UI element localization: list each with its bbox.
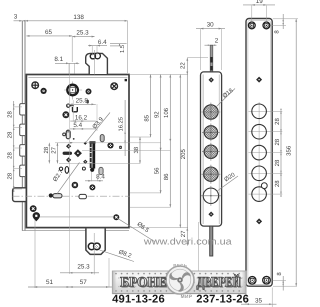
- svg-text:Ø6.5: Ø6.5: [136, 221, 151, 235]
- diamond pin A: [66, 144, 71, 149]
- tiny pin below follower area: [87, 100, 89, 103]
- ext line 138 right: [127, 21, 129, 73]
- screw dark D: [107, 142, 113, 148]
- dim 35: [241, 303, 277, 305]
- dim 19: [243, 4, 275, 6]
- circle pin C: [82, 167, 85, 170]
- screw top-left: [32, 82, 39, 89]
- svg-text:Ø8.2: Ø8.2: [118, 249, 133, 260]
- svg-text:3: 3: [14, 14, 18, 21]
- dimension 1.5: [110, 43, 127, 45]
- svg-text:Ø18: Ø18: [221, 87, 235, 100]
- ext y150.7: [82, 150, 171, 152]
- svg-text:86: 86: [163, 173, 170, 180]
- ext 356 bottom: [273, 285, 297, 287]
- lock body outline: [26, 75, 129, 228]
- strip body: [201, 72, 222, 226]
- svg-text:8: 8: [274, 30, 281, 34]
- strip hole 4: [204, 167, 218, 181]
- dim 8 top: [282, 14, 284, 29]
- dimension 8.1: [55, 62, 79, 64]
- svg-text:8: 8: [276, 272, 283, 276]
- svg-text:2: 2: [215, 38, 219, 45]
- right plate inner contour: [248, 20, 270, 284]
- plate screw top-right: [263, 22, 270, 29]
- dimension 28 27 pair: [48, 143, 50, 164]
- ext y192.9: [130, 192, 161, 194]
- small rounded rect: [79, 194, 86, 198]
- circle pin B: [59, 167, 62, 170]
- svg-text:30: 30: [207, 21, 215, 28]
- ext y137: [130, 136, 151, 138]
- latch bump 2 on faceplate: [20, 124, 25, 136]
- screw dark B: [86, 89, 92, 95]
- svg-text:237-13-26: 237-13-26: [196, 294, 249, 306]
- latch bump 3 on faceplate: [20, 145, 25, 157]
- ext body bottom right: [129, 227, 188, 229]
- svg-text:85: 85: [143, 114, 150, 121]
- strip hole 5 D20: [203, 188, 218, 203]
- dimension 16.2: [70, 120, 96, 122]
- svg-text:28: 28: [274, 138, 281, 145]
- ext y163.4: [59, 162, 140, 164]
- tiny circle A: [63, 133, 66, 136]
- dimension 5.4: [70, 128, 96, 130]
- ext strip left down: [197, 222, 199, 275]
- dim 25.3 bottom: [60, 272, 99, 274]
- lock body inner top line: [28, 76, 127, 78]
- deadbolt tail pin: [49, 193, 53, 197]
- svg-text:8.1: 8.1: [54, 56, 63, 63]
- ext 30: [199, 29, 201, 70]
- dimension 25.3 top: [72, 36, 94, 38]
- svg-text:35: 35: [255, 297, 263, 304]
- ext line 25.3 left: [71, 37, 73, 62]
- latch bump 4 on faceplate: [20, 165, 25, 177]
- svg-text:28: 28: [7, 152, 14, 159]
- screw bottom-left: [30, 205, 37, 212]
- dim 356 long: [295, 19, 297, 286]
- dim 2 pin: [205, 44, 217, 46]
- screw dark E: [72, 182, 79, 189]
- spring stack component: [89, 141, 95, 143]
- leader D6.5: [118, 218, 155, 241]
- svg-text:205: 205: [180, 149, 187, 160]
- bottom keyhole centerline: [93, 233, 95, 275]
- screw dark A: [41, 88, 47, 94]
- dim 30: [196, 28, 225, 30]
- ext y57.7: [187, 57, 208, 59]
- follower long centerline: [68, 64, 70, 275]
- svg-text:138: 138: [73, 14, 84, 21]
- handle follower U1: [67, 85, 78, 96]
- svg-text:ДВЕРЕЙ: ДВЕРЕЙ: [197, 273, 241, 290]
- plate vertical centerline: [258, 102, 260, 202]
- deadbolt tail slot: [53, 194, 62, 198]
- plate hole 2: [249, 131, 283, 133]
- lever pivot diamond: [74, 149, 82, 157]
- deadbolt axis centerline: [13, 195, 130, 197]
- plate screw top-left: [248, 22, 255, 29]
- plate screw bottom-right: [263, 276, 271, 284]
- leader D18: [216, 89, 235, 108]
- dim 205: [179, 75, 181, 228]
- capsule stud A: [66, 130, 70, 139]
- dim 8 bottom: [282, 276, 284, 291]
- left chain dimension 28x4: [13, 101, 15, 192]
- svg-text:ВЕСЬ: ВЕСЬ: [173, 263, 187, 268]
- svg-text:28: 28: [274, 118, 281, 125]
- teardrop screw: [33, 212, 40, 221]
- svg-text:1.5: 1.5: [120, 45, 126, 53]
- dimension 65: [26, 35, 72, 37]
- svg-text:28: 28: [43, 146, 50, 153]
- dimension 16.25: [124, 100, 126, 156]
- small diamond mid: [83, 160, 87, 164]
- svg-text:www.dveri.com.ua: www.dveri.com.ua: [143, 236, 233, 247]
- dim 85: [150, 75, 152, 138]
- plate screw bottom-left: [248, 277, 256, 285]
- pin E: [119, 146, 122, 149]
- svg-text:25.8: 25.8: [76, 98, 89, 105]
- corner pin top-right: [125, 79, 127, 81]
- svg-text:22: 22: [180, 62, 187, 69]
- pin D3.9: [84, 142, 87, 145]
- dim 106 86: [169, 75, 171, 208]
- leader D3.9: [86, 113, 111, 143]
- bottom keyhole figure-8: [88, 243, 95, 250]
- screw dark F: [89, 184, 95, 190]
- ext y207.2: [130, 206, 171, 208]
- strip diamond bottom: [208, 212, 213, 217]
- strip pin: [210, 45, 213, 72]
- faceplate side view strip: [21, 21, 23, 231]
- dimension 6.4: [88, 45, 107, 47]
- ext 8.1: [68, 63, 70, 73]
- svg-text:МИР: МИР: [181, 294, 193, 300]
- strip hole 1 D18: [204, 105, 218, 119]
- capsule dark lever: [63, 152, 72, 155]
- svg-text:106: 106: [163, 107, 170, 118]
- slot oval: [65, 167, 69, 174]
- svg-text:92: 92: [153, 111, 160, 118]
- dimension 3 and 138 top line: [14, 20, 128, 22]
- watermark band: [112, 271, 246, 294]
- leader D8.2: [100, 250, 135, 262]
- dimension 25.8: [66, 103, 96, 105]
- top mounting tab: [86, 53, 108, 74]
- svg-text:51: 51: [46, 279, 54, 286]
- plate small circle: [261, 183, 267, 189]
- plate hole 3: [249, 152, 283, 154]
- dim 92 56: [160, 75, 162, 194]
- capsule stud gray B: [100, 135, 104, 142]
- svg-text:19: 19: [256, 0, 264, 5]
- dimension 8.4: [85, 180, 103, 182]
- U bracket: [73, 107, 78, 112]
- plate hole 5: [249, 193, 283, 195]
- plate diamond bottom: [256, 218, 262, 224]
- svg-text:28: 28: [274, 159, 281, 166]
- ext 8.4: [90, 172, 92, 182]
- svg-text:БРОНЕ: БРОНЕ: [120, 274, 167, 290]
- svg-text:57: 57: [80, 279, 88, 286]
- svg-text:6.4: 6.4: [98, 39, 107, 46]
- svg-text:356: 356: [286, 145, 293, 156]
- svg-text:16.2: 16.2: [75, 114, 88, 121]
- capsule stud gray C: [99, 167, 103, 174]
- strip hole 2: [204, 126, 217, 139]
- svg-text:16.25: 16.25: [118, 117, 125, 132]
- bottom centerline: [40, 216, 113, 218]
- bottom cylinder tab: [86, 229, 105, 255]
- strip diamond top: [209, 77, 214, 82]
- svg-text:28: 28: [274, 180, 281, 187]
- dim 28 chain right: [280, 111, 282, 194]
- screw bottom-right: [113, 214, 119, 220]
- svg-text:28: 28: [7, 111, 14, 118]
- follower centerlines: [64, 89, 82, 91]
- ext 51 57: [108, 258, 110, 288]
- svg-text:28: 28: [7, 172, 14, 179]
- screw top-right: [111, 83, 118, 90]
- strip inner lines: [202, 75, 204, 225]
- svg-text:25.3: 25.3: [76, 30, 89, 37]
- watermark logo VES MIR: [166, 266, 194, 294]
- svg-text:65: 65: [45, 29, 53, 36]
- strip tail: [210, 226, 213, 256]
- plate diamond top: [256, 77, 262, 83]
- faceplate bottom edge line: [22, 230, 129, 232]
- ext line left of 51: [34, 220, 36, 288]
- svg-text:38: 38: [133, 146, 140, 153]
- right plate outline: [246, 19, 272, 287]
- svg-text:56: 56: [153, 167, 160, 174]
- svg-text:27: 27: [51, 146, 58, 153]
- deadbolt protruding left: [13, 188, 28, 202]
- left chain ext lines: [14, 106, 22, 108]
- svg-text:25.3: 25.3: [77, 263, 90, 270]
- leader D20: [217, 176, 239, 192]
- dim 38: [139, 137, 141, 163]
- diamond pin B: [66, 157, 71, 162]
- ext 6.4: [91, 46, 93, 56]
- eyelet pin: [67, 104, 70, 107]
- plate hole 4: [249, 172, 283, 174]
- top keyhole figure-8: [90, 54, 95, 59]
- leader D2.7: [57, 163, 80, 194]
- ext y142.8: [55, 142, 161, 144]
- dim 51 57: [28, 286, 115, 288]
- svg-text:28: 28: [7, 131, 14, 138]
- keyhole centerline top: [94, 50, 96, 75]
- strip hole 3: [204, 145, 217, 158]
- tiny dot: [73, 138, 75, 140]
- svg-text:5.4: 5.4: [73, 122, 82, 129]
- svg-text:491-13-26: 491-13-26: [112, 294, 165, 306]
- latch bump 1 on faceplate: [20, 104, 25, 115]
- ext 16.2 left: [72, 100, 74, 122]
- screw dark C: [62, 111, 69, 118]
- dim 22 27: [186, 58, 188, 246]
- plate hole 1: [249, 110, 283, 112]
- ext body top right: [129, 74, 188, 76]
